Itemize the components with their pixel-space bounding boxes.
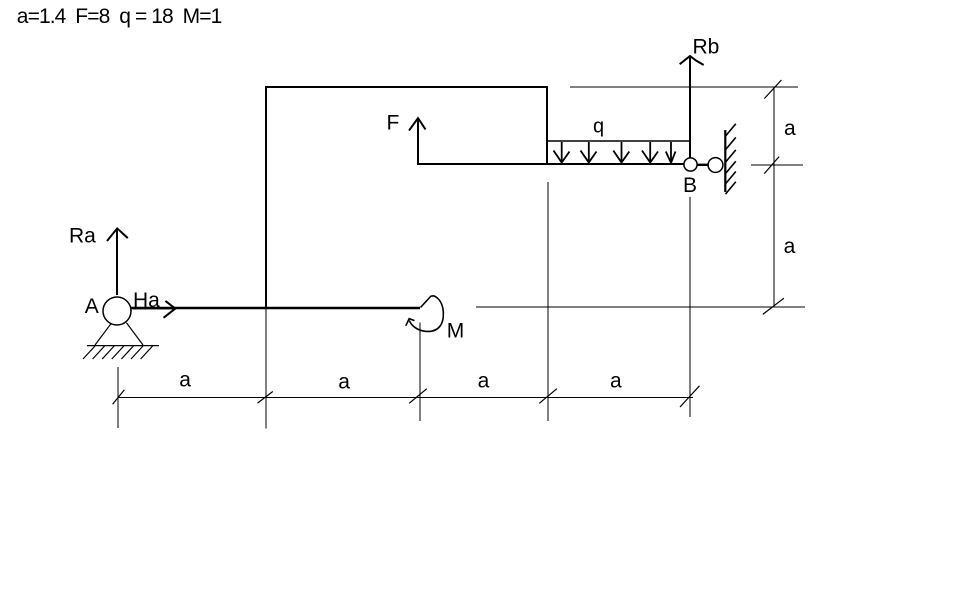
support A ground hatching [83, 346, 153, 359]
dimension ref line top right y=87 [570, 86, 798, 88]
extension line x=548 [547, 182, 549, 421]
svg-text:Ra: Ra [69, 224, 96, 247]
q arrow 5 [666, 142, 676, 163]
tick at right dim y=165 [764, 157, 779, 174]
svg-text:a=1.4 F=8 q = 18 M=1: a=1.4 F=8 q = 18 M=1 [17, 5, 222, 28]
svg-text:F: F [387, 112, 400, 135]
svg-text:A: A [85, 295, 99, 318]
support B wall hatching [726, 124, 736, 194]
support B link bar [698, 164, 710, 166]
tick at right dim y=87 [764, 80, 781, 99]
q arrow 4 [642, 142, 658, 163]
support B roller circle 1 [684, 158, 697, 171]
force Ha arrow [133, 301, 175, 318]
right dimension vertical line [773, 87, 775, 307]
tick at x=266 [258, 392, 273, 404]
tick at x=548 [539, 389, 557, 404]
svg-text:a: a [784, 117, 796, 140]
q arrow 2 [581, 142, 597, 163]
dimension ref line y=307 [476, 306, 805, 308]
bottom dimension line y=397 [118, 396, 693, 398]
member: left column [265, 86, 267, 308]
force F arrow [409, 118, 426, 164]
svg-text:a: a [179, 368, 191, 391]
moment M curl [406, 296, 444, 332]
extension line x=420 [419, 323, 421, 421]
q arrow 1 [554, 142, 570, 163]
tick at x=690 [680, 386, 700, 407]
support B wall line [724, 130, 726, 192]
member: top chord [265, 86, 548, 88]
svg-text:a: a [784, 235, 796, 258]
force Rb arrow [680, 56, 704, 164]
force Ra arrow [107, 228, 128, 295]
svg-text:a: a [610, 370, 622, 393]
support B roller circle 2 [708, 158, 723, 173]
support A ground line [87, 345, 159, 347]
tick at right dim y=307 [763, 298, 784, 314]
extension line x=690 [689, 197, 691, 417]
svg-text:Ha: Ha [133, 289, 160, 312]
tick at x=420 [409, 389, 427, 404]
svg-text:M: M [447, 320, 465, 343]
member: upper beam F to B [417, 163, 685, 165]
svg-text:Rb: Rb [693, 35, 720, 58]
member: right column [546, 86, 548, 164]
support A triangle legs [95, 324, 111, 345]
svg-text:a: a [338, 370, 350, 393]
support A pin circle [103, 297, 131, 325]
tick at x=118 [113, 390, 125, 404]
svg-text:B: B [683, 174, 697, 197]
svg-text:a: a [478, 369, 490, 392]
dimension ref line y=165 right [751, 164, 803, 166]
q arrow 3 [613, 142, 629, 163]
member: lower beam A to M [130, 307, 420, 310]
extension line below A x=118 [117, 367, 119, 428]
distributed load q top line [547, 140, 690, 142]
extension line x=266 [265, 308, 267, 429]
svg-text:q: q [593, 116, 604, 138]
